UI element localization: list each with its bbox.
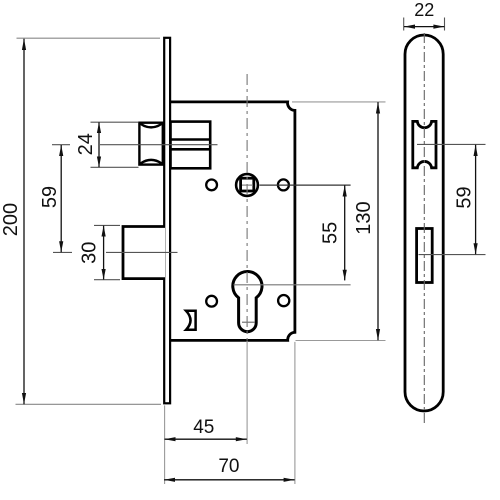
faceplate front view: [164, 38, 170, 404]
latch housing line lower: [171, 148, 211, 151]
centerline deadbolt horizontal: [53, 251, 72, 253]
svg-text:59: 59: [453, 186, 475, 208]
euro cylinder tick: [242, 321, 255, 323]
extension lines 30 dim: [94, 224, 120, 226]
stop bracket: [186, 311, 196, 330]
screw hole upper left: [206, 180, 217, 191]
extension line follower to 55 dim: [260, 184, 351, 186]
centerline vertical front view: [246, 74, 248, 340]
extension line cylinder center to 55 dim: [234, 284, 351, 286]
lock body outline: [171, 102, 295, 341]
latch bolt bottom bevel arc: [141, 160, 162, 164]
svg-text:200: 200: [0, 203, 22, 236]
dimension 45 line: [165, 438, 247, 440]
side view faceplate stadium: [405, 35, 443, 411]
extension line centerline to 45 dim: [246, 341, 248, 445]
extension line bolt center to 59 dim right: [419, 254, 486, 256]
extension line faceplate to 45 and 70 dims: [164, 405, 166, 484]
extension lines 22 dim: [403, 18, 405, 31]
latch bolt top bevel arc: [141, 124, 162, 127]
latch bolt: [139, 123, 162, 165]
svg-text:70: 70: [218, 456, 239, 477]
svg-text:30: 30: [79, 242, 101, 264]
dimension 70 line: [164, 479, 295, 481]
follower square spindle hole: [241, 178, 254, 191]
extension line body top to 130 dim: [292, 101, 386, 103]
extension line body bottom to 130 dim: [296, 340, 386, 342]
follower center dash: [242, 184, 253, 186]
dimension 59 right line: [475, 145, 477, 255]
svg-text:22: 22: [414, 0, 434, 20]
dimension 59 left line: [60, 145, 62, 252]
dimension 22 line: [404, 26, 444, 28]
extension line faceplate top: [17, 37, 161, 39]
dimension 200 line: [23, 39, 25, 404]
dimension 24 line: [98, 122, 100, 167]
extension line body right edge to 70 dim: [294, 342, 296, 484]
screw hole upper right: [278, 179, 289, 190]
screw hole lower right: [278, 295, 289, 306]
side view bolt cutout: [417, 229, 433, 283]
dimension 30 line: [103, 226, 105, 280]
screw hole lower left: [206, 296, 217, 307]
extension line faceplate bottom: [16, 403, 162, 405]
deadbolt: [123, 227, 165, 279]
side view centerline: [423, 33, 425, 425]
extension line latch center to 59 dim right: [417, 143, 486, 145]
svg-text:55: 55: [319, 222, 341, 244]
extension lines 24 dim: [91, 121, 139, 123]
centerline latch horizontal: [52, 144, 70, 146]
follower outer circle: [236, 174, 258, 196]
svg-text:59: 59: [39, 186, 61, 208]
latch housing line upper: [171, 138, 211, 141]
dimension 55 line: [344, 185, 346, 280]
side view latch cutout: [413, 121, 436, 167]
latch housing: [171, 122, 211, 169]
svg-text:24: 24: [75, 133, 97, 155]
svg-text:45: 45: [193, 417, 214, 438]
dimension 130 line: [377, 102, 379, 340]
euro cylinder hole: [233, 272, 262, 332]
svg-text:130: 130: [353, 201, 375, 234]
